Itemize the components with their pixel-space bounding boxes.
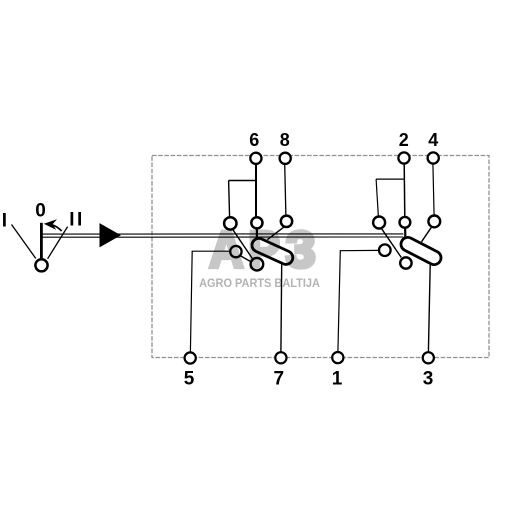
wire contact D to E (diagonal) [240, 256, 251, 262]
wire terminal4 to contact H [433, 164, 434, 216]
contact B [251, 217, 262, 228]
wire branch horizontal (6 to A) [229, 180, 257, 182]
terminal 7 [275, 352, 286, 363]
contact D [230, 246, 241, 257]
svg-text:8: 8 [280, 130, 290, 150]
svg-text:2: 2 [399, 130, 409, 150]
svg-text:1: 1 [332, 368, 343, 389]
wire branch vertical to A [229, 181, 230, 218]
lever position line I [12, 225, 36, 259]
terminal 4 [428, 152, 439, 163]
svg-text:I: I [2, 211, 7, 232]
contact C [281, 216, 292, 227]
svg-text:7: 7 [274, 368, 285, 389]
wire bridge1 to terminal 7 [280, 265, 283, 353]
contact I2 [379, 244, 391, 256]
svg-text:0: 0 [35, 201, 46, 222]
contact J [400, 257, 411, 268]
wire contact C to bridge (diagonal) [267, 227, 284, 240]
wire contact B to bridge (stub) [256, 228, 258, 241]
terminal 3 [423, 352, 434, 363]
wire terminal1 L (horizontal to I2) [340, 249, 379, 251]
svg-text:3: 3 [286, 222, 316, 279]
wire terminal6 to contact B [255, 164, 257, 218]
wire terminal8 to contact C [285, 164, 286, 216]
shaft arrowhead [100, 223, 121, 247]
svg-text:AGRO PARTS BALTIJA: AGRO PARTS BALTIJA [199, 278, 320, 290]
contact G [400, 217, 411, 228]
wire terminal1 L (vertical) [338, 251, 340, 352]
wire terminal5 L (vertical) [190, 251, 192, 352]
svg-text:A: A [209, 221, 243, 278]
contact A [224, 217, 236, 229]
wire contact F to J (diagonal) [381, 228, 401, 257]
rotation arrow (curved) [52, 225, 62, 231]
lever pivot [35, 259, 47, 271]
terminal 6 [250, 153, 261, 164]
lever position line II [48, 227, 68, 259]
wire contact A to E (diagonal) [233, 229, 253, 258]
wire shaft lower [43, 236, 404, 238]
contact E [251, 258, 264, 271]
wire contact G to bridge (stub) [404, 228, 406, 241]
terminal 5 [185, 352, 196, 363]
lever (position 0) [40, 223, 43, 259]
terminal 8 [280, 153, 291, 164]
terminal 2 [398, 152, 409, 163]
svg-text:6: 6 [249, 130, 259, 150]
wire branch horizontal (2 to F) [376, 178, 405, 180]
switch body dashed enclosure [152, 156, 489, 358]
watermark [199, 221, 320, 290]
wire contact H to bridge (diagonal) [422, 227, 432, 242]
svg-text:3: 3 [423, 368, 434, 389]
contact F [373, 217, 385, 229]
svg-text:II: II [69, 210, 85, 231]
wire terminal2 to contact G [403, 164, 406, 218]
svg-text:4: 4 [428, 130, 438, 150]
terminal 1 [332, 352, 343, 363]
wire branch vertical to F [376, 179, 378, 217]
wire terminal5 L (horizontal to D) [192, 250, 231, 252]
wire bridge2 to terminal 3 [428, 265, 430, 352]
svg-text:5: 5 [184, 368, 195, 389]
svg-text:P: P [248, 221, 279, 278]
contact bridge 1 (left capsule) [259, 245, 286, 257]
actuator shaft double line [43, 233, 404, 235]
contact H [428, 216, 440, 228]
contact bridge 2 (right capsule) [408, 244, 434, 258]
